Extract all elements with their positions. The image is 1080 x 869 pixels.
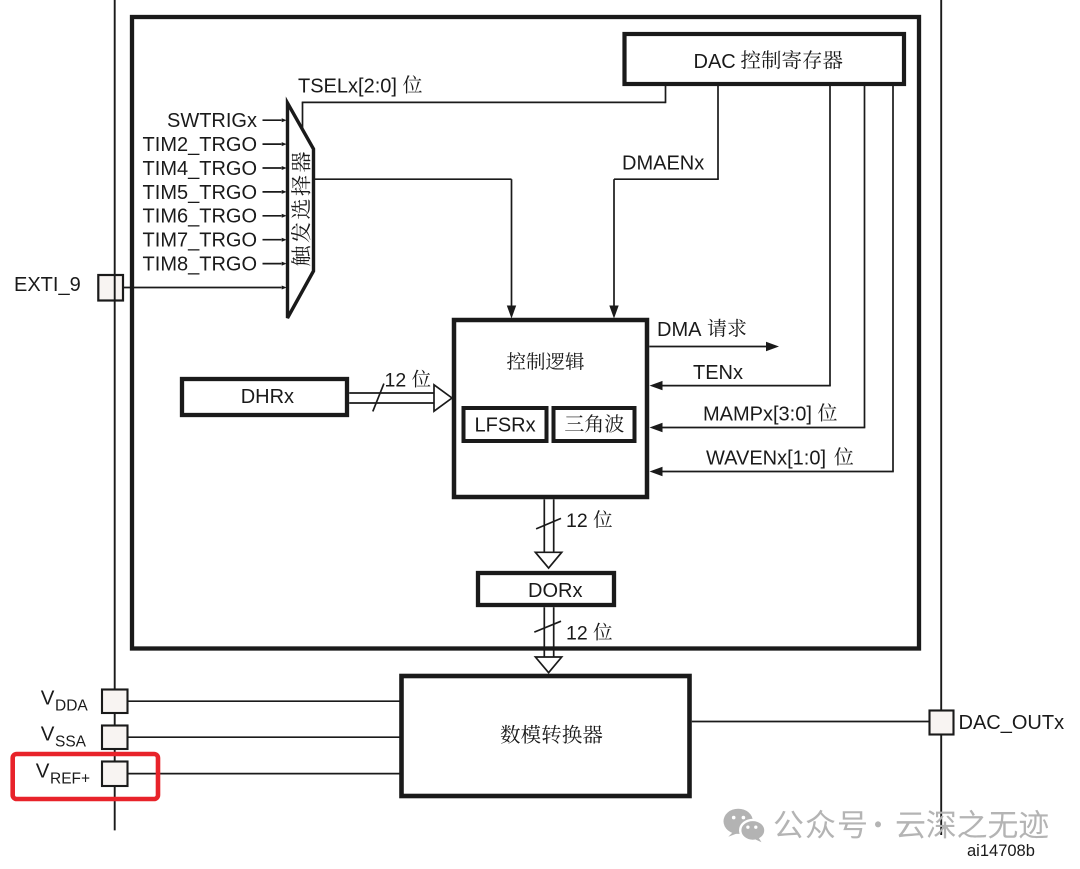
label 数模转换器	[501, 725, 603, 744]
svg-text:V: V	[41, 687, 55, 710]
svg-text:DAC_OUTx: DAC_OUTx	[959, 712, 1065, 734]
block 三角波	[554, 408, 635, 441]
wire+label TIM4_TRGO input	[263, 167, 282, 169]
label 控制逻辑	[507, 352, 584, 370]
register box: DAC control register	[625, 34, 905, 84]
svg-text:SSA: SSA	[55, 734, 87, 751]
svg-text:12: 12	[566, 623, 588, 645]
wire VDDA to converter	[128, 700, 402, 702]
bus: control logic to DORx (12-bit)	[543, 499, 545, 553]
svg-text:TIM8_TRGO: TIM8_TRGO	[143, 254, 257, 276]
svg-text:DMAENx: DMAENx	[622, 153, 704, 175]
svg-text:DORx: DORx	[528, 580, 582, 602]
pin VDDA	[102, 690, 128, 714]
pin VREF+	[102, 762, 128, 787]
svg-text:WAVENx[1:0]: WAVENx[1:0]	[706, 448, 826, 470]
wire: left I/O rail	[114, 0, 116, 830]
wire WAVENx: register to control logic	[892, 86, 894, 472]
wire+label TIM5_TRGO input	[263, 191, 282, 193]
wire+label TIM8_TRGO input	[263, 263, 282, 265]
wire TSELx: mux to DAC control register	[302, 102, 304, 129]
wire DMA request out	[649, 346, 767, 348]
wire+label TIM7_TRGO input	[263, 239, 282, 241]
block LFSRx	[464, 408, 547, 441]
pin VSSA	[102, 726, 128, 750]
svg-text:TIM4_TRGO: TIM4_TRGO	[143, 158, 257, 180]
wire+label TIM2_TRGO input	[263, 143, 282, 145]
svg-text:12: 12	[385, 370, 407, 392]
register box DHRx	[182, 379, 347, 415]
wire: right I/O rail	[940, 0, 942, 835]
wire MAMPx: register to control logic	[864, 86, 866, 428]
wire DMAENx: register to control logic	[717, 86, 719, 179]
svg-text:DDA: DDA	[55, 698, 88, 715]
svg-text:TSELx[2:0]: TSELx[2:0]	[298, 76, 397, 98]
red highlight box around VREF+	[13, 754, 158, 799]
svg-text:TIM6_TRGO: TIM6_TRGO	[143, 206, 257, 228]
wire: mux output to control logic	[314, 178, 512, 180]
svg-text:TIM2_TRGO: TIM2_TRGO	[143, 134, 257, 156]
svg-text:12: 12	[566, 510, 588, 532]
block: digital-to-analog converter	[402, 676, 690, 796]
wire DAC_OUTx output	[692, 721, 930, 723]
mux: trigger selector	[288, 103, 314, 318]
bus: DORx to DAC (12-bit)	[543, 607, 545, 657]
svg-text:V: V	[36, 760, 50, 783]
svg-text:DHRx: DHRx	[241, 386, 294, 408]
svg-text:DAC: DAC	[694, 51, 736, 73]
pin DAC_OUTx	[930, 711, 954, 735]
svg-text:SWTRIGx: SWTRIGx	[167, 110, 257, 132]
register box DORx	[478, 573, 614, 605]
svg-text:LFSRx: LFSRx	[475, 415, 536, 437]
svg-text:TIM7_TRGO: TIM7_TRGO	[143, 230, 257, 252]
wire+label SWTRIGx input	[263, 119, 282, 121]
wire+label TIM6_TRGO input	[263, 215, 282, 217]
wire VSSA to converter	[128, 736, 402, 738]
svg-text:TENx: TENx	[693, 362, 743, 384]
svg-text:ai14708b: ai14708b	[967, 842, 1035, 860]
wire TENx: register to control logic	[829, 86, 831, 386]
svg-text:MAMPx[3:0]: MAMPx[3:0]	[703, 404, 812, 426]
svg-text:REF+: REF+	[50, 771, 90, 788]
svg-text:EXTI_9: EXTI_9	[14, 274, 81, 296]
DAC block outer frame	[132, 17, 919, 649]
pin EXTI_9	[98, 275, 123, 301]
bus: DHRx to control logic (12-bit)	[349, 392, 435, 394]
watermark text 公众号·云深之无迹	[775, 810, 866, 839]
svg-text:TIM5_TRGO: TIM5_TRGO	[143, 182, 257, 204]
watermark WeChat icon	[724, 809, 766, 843]
block: control logic	[454, 320, 647, 497]
svg-text:DMA: DMA	[657, 319, 702, 341]
wire VREF+ to converter	[128, 773, 402, 775]
label 触发选择器 (vertical)	[291, 152, 311, 266]
svg-text:V: V	[41, 723, 55, 746]
wire EXTI_9 to mux	[124, 287, 282, 289]
